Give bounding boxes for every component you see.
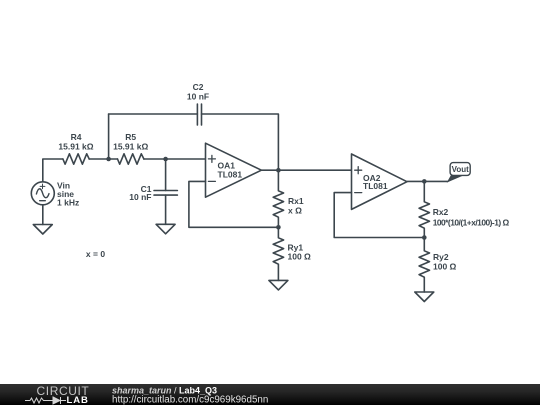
wire OA1 output to OA2 plus input (261, 169, 351, 171)
svg-text:x = 0: x = 0 (86, 249, 105, 259)
svg-text:Rx2: Rx2 (433, 207, 449, 217)
wire R5 to OA1 plus input (144, 158, 206, 160)
svg-text:x Ω: x Ω (288, 205, 302, 215)
op-amp OA1 minus sign (208, 180, 215, 182)
capacitor C1 (154, 191, 177, 196)
wire C2 right down to OA1 output node (202, 114, 279, 170)
junction node OA1 output (276, 168, 281, 173)
voltage source V1 plus sign (40, 184, 45, 189)
op-amp OA1 plus sign (208, 155, 215, 162)
junction node B (163, 157, 168, 162)
wire R4 to R5 (89, 158, 117, 160)
resistor Rx2 (419, 181, 429, 237)
flag Vout (448, 163, 471, 182)
junction node A (106, 157, 111, 162)
voltage source V1 Vin circle (31, 182, 54, 205)
ground under Ry2 (415, 292, 434, 302)
svg-text:15.91 kΩ: 15.91 kΩ (58, 142, 93, 152)
svg-text:Ry2: Ry2 (433, 252, 449, 262)
op-amp OA2 (352, 154, 408, 209)
svg-text:100 Ω: 100 Ω (433, 262, 457, 272)
op-amp OA2 plus sign (355, 167, 362, 174)
resistor Ry2 (419, 238, 429, 293)
svg-text:R4: R4 (71, 132, 82, 142)
svg-text:100 Ω: 100 Ω (288, 252, 312, 262)
svg-text:TL081: TL081 (218, 169, 243, 179)
wire OA2 output to Vout (407, 180, 448, 182)
voltage source V1 minus sign (40, 200, 46, 202)
wire node B down to C1 (165, 159, 167, 191)
svg-text:C2: C2 (193, 82, 204, 92)
junction node Rx1/Ry1 (276, 225, 281, 230)
wire C1 to ground (165, 195, 167, 224)
svg-text:10 nF: 10 nF (129, 192, 151, 202)
resistor R5 (118, 154, 144, 164)
svg-text:TL081: TL081 (363, 181, 388, 191)
svg-text:R5: R5 (125, 132, 136, 142)
wire C2 left (109, 113, 198, 115)
logo resistor-diode doodle (25, 397, 66, 404)
junction node Rx2/Ry2 (422, 235, 427, 240)
footer bar (0, 384, 540, 405)
svg-text:LAB: LAB (67, 395, 89, 405)
ground under Vin (33, 225, 52, 235)
svg-text:1 kHz: 1 kHz (57, 197, 79, 207)
ground under Ry1 (269, 280, 288, 290)
wire OA2 feedback loop (334, 193, 424, 238)
svg-text:10 nF: 10 nF (187, 92, 209, 102)
wire Vin bottom to ground (42, 205, 44, 225)
wire OA1 feedback loop (189, 181, 279, 227)
resistor Rx1 (273, 170, 283, 227)
svg-text:http://circuitlab.com/c9c969k9: http://circuitlab.com/c9c969k96d5nn (112, 395, 268, 405)
svg-text:15.91 kΩ: 15.91 kΩ (113, 142, 148, 152)
op-amp OA2 minus sign (355, 192, 362, 194)
voltage source V1 sine wave (36, 189, 49, 198)
svg-text:100*(10/(1+x/100)-1) Ω: 100*(10/(1+x/100)-1) Ω (433, 217, 510, 227)
svg-text:Vout: Vout (452, 165, 470, 174)
resistor R4 (63, 154, 89, 164)
resistor Ry1 (273, 227, 283, 280)
junction node OA2 output (422, 179, 427, 184)
wire Vin top to R4 (43, 159, 63, 182)
wire node A up to C2 branch (108, 114, 110, 159)
ground under C1 (156, 224, 175, 234)
op-amp OA1 (206, 143, 262, 197)
capacitor C2 (197, 104, 201, 125)
